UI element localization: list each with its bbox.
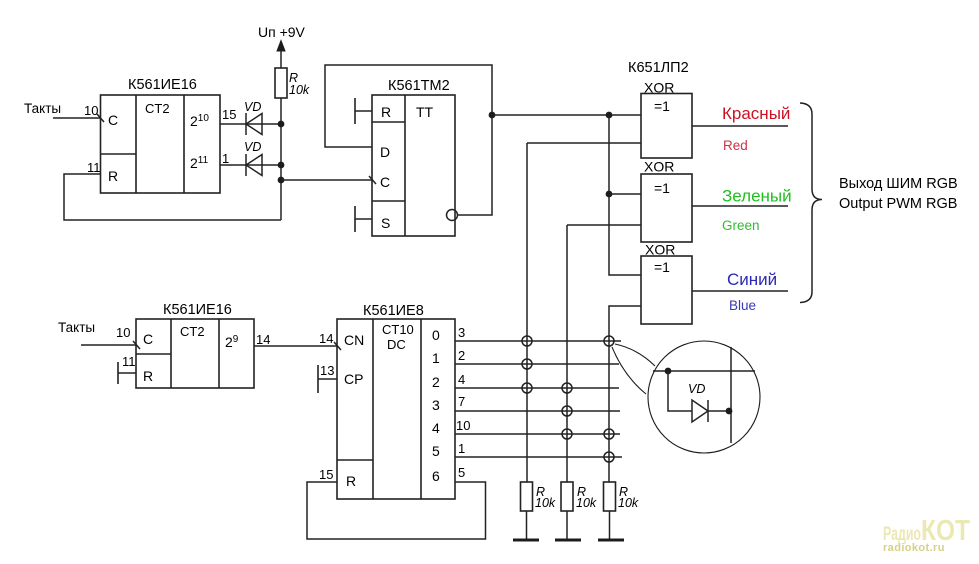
svg-text:14: 14 bbox=[256, 332, 270, 347]
svg-text:CT2: CT2 bbox=[180, 324, 205, 339]
wire blue output bbox=[692, 290, 788, 292]
svg-text:CT2: CT2 bbox=[145, 101, 170, 116]
detail row wire bbox=[653, 370, 755, 372]
diode node circle r0c3 bbox=[604, 336, 614, 346]
svg-text:VD: VD bbox=[244, 140, 261, 154]
wire bus to TM2 C input bbox=[281, 179, 372, 181]
svg-text:R: R bbox=[108, 168, 118, 184]
counter U4 K561IE8 box bbox=[337, 303, 455, 499]
svg-text:11: 11 bbox=[87, 160, 101, 175]
wire bar to S bbox=[355, 218, 372, 220]
wire column bus 2 bbox=[566, 225, 568, 482]
svg-text:Такты: Такты bbox=[24, 101, 61, 116]
wire XOR3 lower input bbox=[609, 306, 641, 482]
svg-text:=1: =1 bbox=[654, 180, 670, 196]
wire row 1 bbox=[455, 363, 619, 365]
resistor R 10k pull-up bbox=[275, 68, 310, 98]
svg-text:=1: =1 bbox=[654, 98, 670, 114]
svg-text:C: C bbox=[108, 112, 118, 128]
node TM2 output junction bbox=[489, 112, 496, 119]
wire 2^10 output bbox=[220, 123, 281, 125]
svg-text:1: 1 bbox=[432, 350, 440, 366]
svg-text:6: 6 bbox=[432, 468, 440, 484]
svg-text:Green: Green bbox=[722, 218, 760, 233]
svg-text:10: 10 bbox=[456, 418, 470, 433]
svg-text:XOR: XOR bbox=[644, 159, 674, 175]
svg-text:CP: CP bbox=[344, 371, 363, 387]
svg-text:Такты: Такты bbox=[58, 320, 95, 335]
dynamic input tick CN bbox=[334, 342, 341, 350]
wire XOR2 lower input bbox=[567, 224, 641, 226]
diode node circle r0c1 bbox=[522, 336, 532, 346]
svg-text:К561ТМ2: К561ТМ2 bbox=[388, 78, 450, 94]
svg-text:Выход ШИМ RGB: Выход ШИМ RGB bbox=[839, 176, 958, 192]
dynamic input tick C of TM2 bbox=[369, 176, 376, 184]
wire 2^11 output bbox=[220, 164, 281, 166]
wire R1 to ground bbox=[526, 511, 528, 540]
wire column bus 1 bbox=[526, 143, 528, 482]
xor gate DD1.3 bbox=[641, 242, 692, 325]
svg-text:К561ИЕ16: К561ИЕ16 bbox=[163, 302, 232, 318]
svg-text:Зеленый: Зеленый bbox=[722, 187, 792, 206]
svg-text:C: C bbox=[143, 331, 153, 347]
svg-text:14: 14 bbox=[319, 331, 333, 346]
R input common bar bbox=[117, 362, 119, 384]
svg-text:10k: 10k bbox=[618, 496, 639, 510]
flip-flop U2 K561TM2 box bbox=[372, 78, 455, 236]
diode node circle r1c1 bbox=[522, 359, 532, 369]
svg-text:S: S bbox=[381, 215, 390, 231]
svg-text:11: 11 bbox=[122, 354, 136, 369]
svg-text:2: 2 bbox=[458, 348, 465, 363]
svg-text:1: 1 bbox=[458, 441, 465, 456]
svg-text:VD: VD bbox=[244, 100, 261, 114]
leader curve lower bbox=[612, 347, 646, 394]
wire row 3 bbox=[455, 410, 620, 412]
diode VD2 bbox=[244, 140, 262, 176]
xor gate DD1.2 bbox=[641, 159, 692, 243]
svg-text:TT: TT bbox=[416, 104, 434, 120]
svg-text:=1: =1 bbox=[654, 259, 670, 275]
diode node circle r3c2 bbox=[562, 406, 572, 416]
diode node circle r5c3 bbox=[604, 452, 614, 462]
svg-text:D: D bbox=[380, 144, 390, 160]
power arrow bbox=[277, 41, 285, 52]
svg-text:CN: CN bbox=[344, 332, 364, 348]
R input common bar bbox=[354, 98, 356, 124]
svg-text:К561ИЕ8: К561ИЕ8 bbox=[363, 303, 424, 319]
svg-text:4: 4 bbox=[458, 372, 465, 387]
svg-text:3: 3 bbox=[432, 397, 440, 413]
diode node circle r4c2 bbox=[562, 429, 572, 439]
wire green output bbox=[692, 205, 788, 207]
svg-text:10k: 10k bbox=[289, 83, 310, 97]
svg-text:К651ЛП2: К651ЛП2 bbox=[628, 60, 689, 76]
node detail row junction bbox=[665, 368, 672, 375]
diode node circle r2c2 bbox=[562, 383, 572, 393]
diode node circle r2c1 bbox=[522, 383, 532, 393]
output inversion bubble bbox=[447, 210, 458, 221]
svg-text:Красный: Красный bbox=[722, 104, 790, 123]
wire row 2 bbox=[455, 387, 619, 389]
svg-text:Red: Red bbox=[723, 138, 748, 153]
svg-text:VD: VD bbox=[688, 382, 705, 396]
resistor R2 10k bbox=[561, 482, 597, 511]
leader curve upper bbox=[615, 344, 655, 366]
svg-text:5: 5 bbox=[432, 443, 440, 459]
dynamic input tick C bbox=[97, 114, 104, 122]
wire bar to R bbox=[118, 372, 136, 374]
wire pull-up bus bbox=[280, 98, 282, 220]
svg-text:0: 0 bbox=[432, 327, 440, 343]
node C-input junction bbox=[278, 177, 285, 184]
wire R feedback loop of U1 bbox=[64, 174, 281, 220]
wire bar to R bbox=[355, 110, 372, 112]
diode VD detail bbox=[688, 382, 729, 422]
node XOR bus junction bbox=[606, 112, 613, 119]
node diode2 junction bbox=[278, 162, 285, 169]
svg-text:1: 1 bbox=[222, 151, 229, 166]
svg-text:C: C bbox=[380, 174, 390, 190]
node detail column junction bbox=[726, 408, 733, 415]
node diode1 junction bbox=[278, 121, 285, 128]
wire output6 to R feedback loop bbox=[307, 482, 486, 539]
diode node circle r4c3 bbox=[604, 429, 614, 439]
wire 2^9 to CN bbox=[254, 345, 337, 347]
wire to XOR2 upper input bbox=[609, 193, 641, 195]
svg-text:7: 7 bbox=[458, 394, 465, 409]
ground 2 bbox=[555, 539, 581, 542]
diode VD1 bbox=[244, 100, 262, 135]
wire clock to C pin 10 bbox=[81, 344, 136, 346]
wire arrow to resistor bbox=[280, 50, 282, 68]
wire clock to C pin 10 bbox=[53, 117, 101, 119]
svg-text:10: 10 bbox=[116, 325, 130, 340]
S input common bar bbox=[354, 206, 356, 232]
svg-text:15: 15 bbox=[319, 467, 333, 482]
wire bar to CP bbox=[318, 378, 337, 380]
svg-text:CT10: CT10 bbox=[382, 322, 414, 337]
svg-text:XOR: XOR bbox=[645, 242, 675, 258]
node XOR2 junction bbox=[606, 191, 613, 198]
svg-text:4: 4 bbox=[432, 420, 440, 436]
svg-text:Синий: Синий bbox=[727, 270, 777, 289]
wire to detail diode bbox=[668, 371, 692, 411]
detail column wire bbox=[730, 347, 732, 443]
svg-text:13: 13 bbox=[320, 363, 334, 378]
dynamic input tick bbox=[133, 341, 140, 349]
svg-text:Uп +9V: Uп +9V bbox=[258, 24, 306, 40]
magnifier detail circle bbox=[648, 341, 760, 453]
svg-text:radiokot.ru: radiokot.ru bbox=[883, 542, 945, 554]
wire row 4 bbox=[455, 433, 620, 435]
svg-text:DC: DC bbox=[387, 337, 406, 352]
svg-text:Output PWM RGB: Output PWM RGB bbox=[839, 196, 957, 212]
svg-text:Blue: Blue bbox=[729, 298, 756, 313]
wire XOR bus vertical bbox=[609, 115, 641, 275]
svg-text:2: 2 bbox=[432, 374, 440, 390]
svg-text:5: 5 bbox=[458, 465, 465, 480]
wire R2 to ground bbox=[566, 511, 568, 540]
resistor R3 10k bbox=[604, 482, 639, 511]
wire main signal to XOR1 bbox=[492, 114, 641, 116]
wire red output bbox=[692, 125, 788, 127]
CP input common bar bbox=[317, 365, 319, 393]
svg-text:10: 10 bbox=[84, 103, 98, 118]
wire D feedback loop from output bbox=[325, 65, 492, 147]
svg-text:R: R bbox=[381, 104, 391, 120]
brace output group bbox=[800, 103, 822, 303]
counter U1 K561IE16 box bbox=[101, 77, 221, 193]
ground 1 bbox=[513, 539, 539, 542]
wire inverted output up bbox=[458, 115, 493, 215]
svg-text:15: 15 bbox=[222, 107, 236, 122]
wire R3 to ground bbox=[609, 511, 611, 540]
wire XOR1 lower input bbox=[527, 142, 641, 144]
wire row 0 bbox=[455, 340, 621, 342]
resistor R1 10k bbox=[521, 482, 556, 511]
svg-text:R: R bbox=[143, 368, 153, 384]
svg-text:3: 3 bbox=[458, 325, 465, 340]
svg-text:10k: 10k bbox=[576, 496, 597, 510]
counter U3 K561IE16 box bbox=[136, 302, 254, 388]
svg-text:10k: 10k bbox=[535, 496, 556, 510]
ground 3 bbox=[598, 539, 624, 542]
xor gate DD1.1 bbox=[641, 80, 692, 159]
wire row 5 bbox=[455, 456, 622, 458]
svg-text:R: R bbox=[346, 473, 356, 489]
svg-text:К561ИЕ16: К561ИЕ16 bbox=[128, 77, 197, 93]
